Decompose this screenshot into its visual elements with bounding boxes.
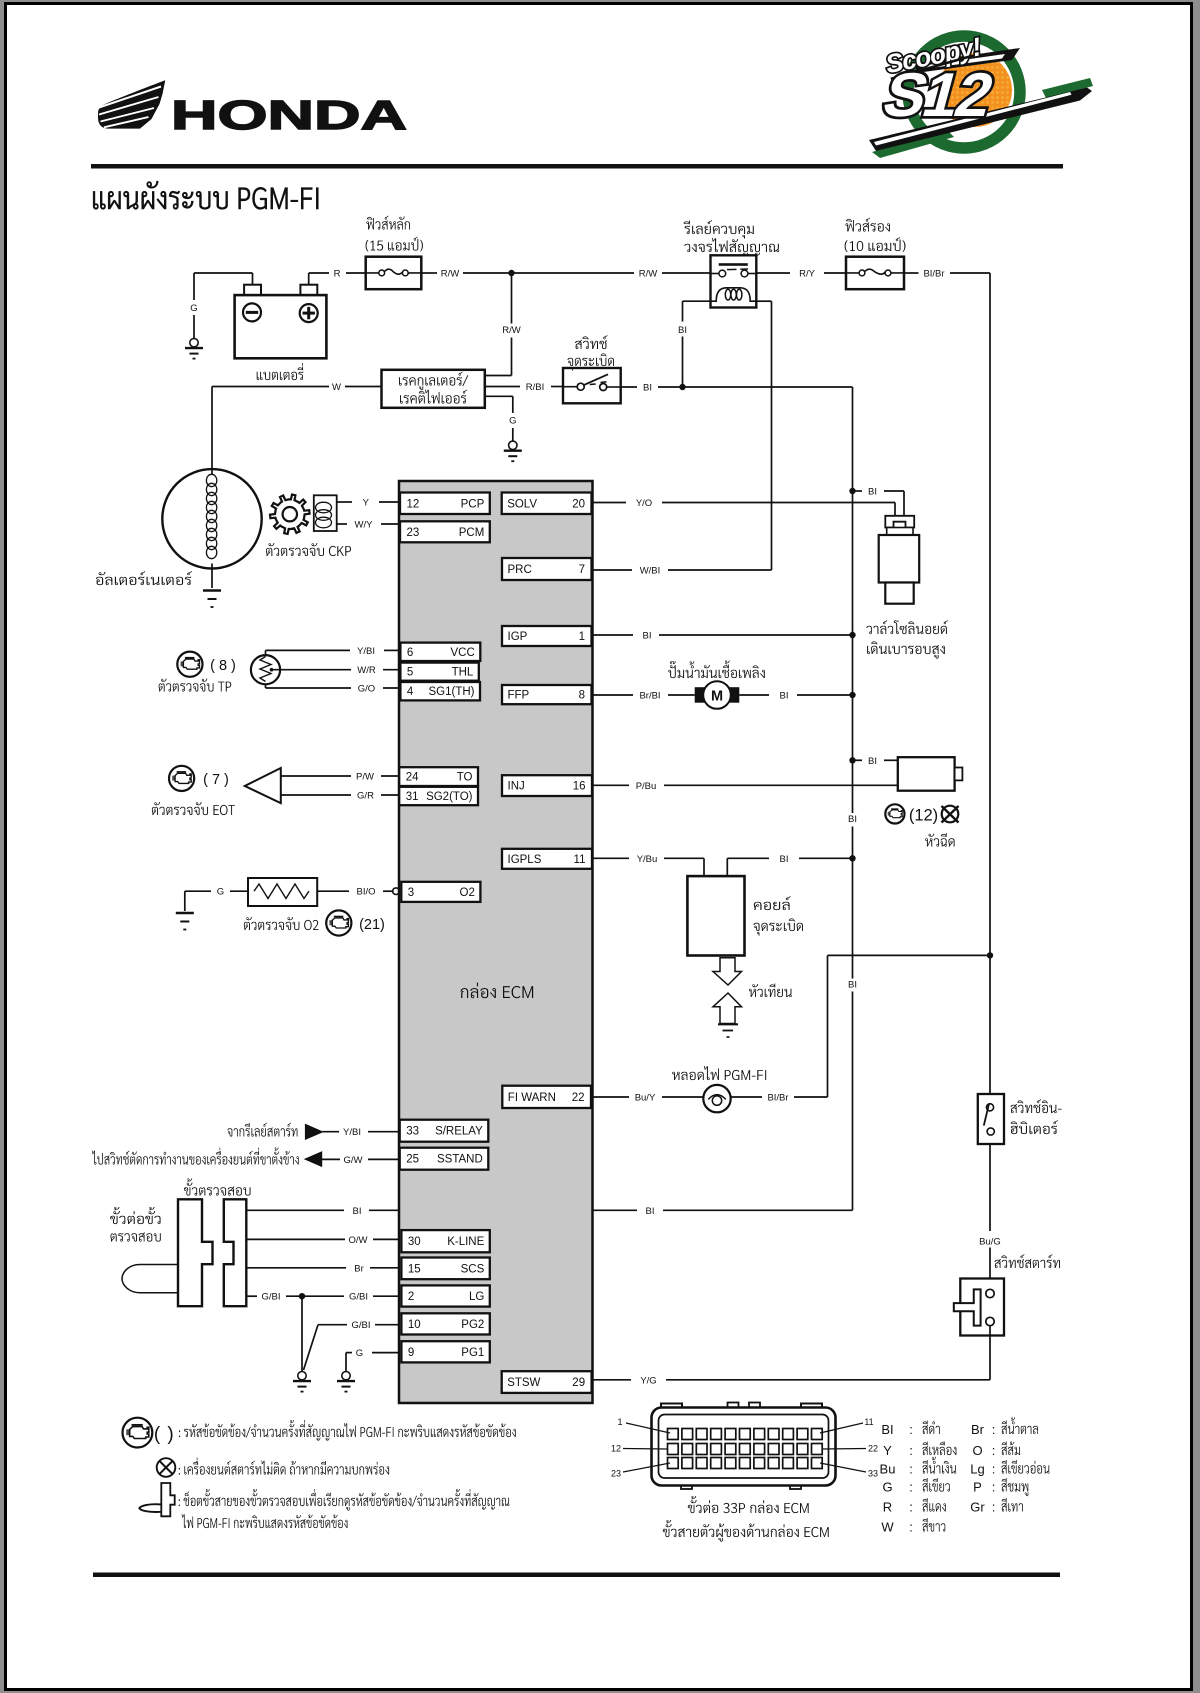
svg-text:Y/Bu: Y/Bu xyxy=(637,854,658,865)
svg-text::: : xyxy=(909,1462,913,1477)
svg-text:2: 2 xyxy=(408,1291,414,1303)
svg-text:4: 4 xyxy=(407,686,414,698)
svg-text:SG1(TH): SG1(TH) xyxy=(429,686,475,698)
svg-text:24: 24 xyxy=(406,772,419,784)
svg-text::: : xyxy=(909,1443,913,1458)
svg-text::: : xyxy=(992,1480,996,1495)
svg-text:G/BI: G/BI xyxy=(349,1292,368,1303)
svg-text:Y/BI: Y/BI xyxy=(357,646,375,657)
svg-text:Bu: Bu xyxy=(880,1462,896,1477)
svg-text::: : xyxy=(992,1422,996,1437)
svg-text:O: O xyxy=(972,1443,982,1458)
svg-text:15: 15 xyxy=(408,1263,421,1275)
svg-text:Bu/G: Bu/G xyxy=(979,1237,1001,1248)
svg-text:SSTAND: SSTAND xyxy=(437,1154,483,1166)
svg-text:30: 30 xyxy=(408,1236,421,1248)
svg-text:STSW: STSW xyxy=(507,1377,540,1389)
svg-text:11: 11 xyxy=(864,1417,873,1427)
svg-text:PG2: PG2 xyxy=(461,1319,484,1331)
svg-text:PCP: PCP xyxy=(461,498,485,510)
svg-text:Br: Br xyxy=(971,1422,985,1437)
svg-text:23: 23 xyxy=(407,527,420,539)
svg-text:R/W: R/W xyxy=(639,269,658,280)
svg-text:FFP: FFP xyxy=(508,690,530,702)
svg-text:1: 1 xyxy=(617,1417,622,1427)
svg-text:22: 22 xyxy=(868,1444,878,1454)
svg-text:LG: LG xyxy=(469,1291,484,1303)
svg-text:1: 1 xyxy=(579,631,585,643)
svg-text:BI: BI xyxy=(848,980,857,991)
svg-text:INJ: INJ xyxy=(508,781,525,793)
svg-text:Bu/Y: Bu/Y xyxy=(635,1093,656,1104)
svg-text:12: 12 xyxy=(407,498,420,510)
svg-text:IGP: IGP xyxy=(508,631,528,643)
svg-text:6: 6 xyxy=(407,647,413,659)
svg-text:( 8 ): ( 8 ) xyxy=(210,658,236,674)
svg-text:G: G xyxy=(190,303,197,314)
svg-text:VCC: VCC xyxy=(451,647,475,659)
svg-text:8: 8 xyxy=(579,690,585,702)
svg-text:11: 11 xyxy=(574,854,586,866)
svg-text:33: 33 xyxy=(868,1469,878,1479)
svg-text::: : xyxy=(909,1520,913,1535)
svg-text:PG1: PG1 xyxy=(461,1347,484,1359)
svg-text:SG2(TO): SG2(TO) xyxy=(426,791,473,803)
svg-text:BI: BI xyxy=(643,383,652,394)
svg-text:BI: BI xyxy=(848,814,857,825)
svg-text:SOLV: SOLV xyxy=(507,498,537,510)
svg-text:O/W: O/W xyxy=(349,1235,368,1246)
svg-text::: : xyxy=(992,1500,996,1515)
svg-text::: : xyxy=(992,1462,996,1477)
svg-text:(21): (21) xyxy=(359,917,385,933)
svg-text:W/R: W/R xyxy=(357,665,376,676)
svg-text:Lg: Lg xyxy=(970,1462,984,1477)
svg-text:S/RELAY: S/RELAY xyxy=(435,1126,483,1138)
svg-text:(: ( xyxy=(154,1424,161,1445)
svg-text:3: 3 xyxy=(408,887,414,899)
svg-text:G/W: G/W xyxy=(344,1155,363,1166)
svg-text:SCS: SCS xyxy=(461,1263,485,1275)
svg-text:R/BI: R/BI xyxy=(526,382,544,393)
svg-text:Br/BI: Br/BI xyxy=(639,691,660,702)
svg-text:G: G xyxy=(509,416,516,427)
svg-text:Br: Br xyxy=(354,1263,364,1274)
svg-text::: : xyxy=(909,1500,913,1515)
svg-text:Y/O: Y/O xyxy=(636,498,652,509)
svg-text:BI: BI xyxy=(678,325,687,336)
svg-text:G/O: G/O xyxy=(358,684,375,695)
svg-text:Y: Y xyxy=(363,498,370,509)
svg-text:BI: BI xyxy=(780,691,789,702)
svg-text:S12: S12 xyxy=(876,61,999,130)
svg-text:THL: THL xyxy=(452,667,474,679)
svg-text:31: 31 xyxy=(406,791,419,803)
svg-text:20: 20 xyxy=(572,498,585,510)
svg-text:Gr: Gr xyxy=(970,1500,985,1515)
svg-text:G/R: G/R xyxy=(357,791,374,802)
svg-text:BI/O: BI/O xyxy=(356,887,375,898)
svg-text::: : xyxy=(992,1443,996,1458)
svg-text:BI: BI xyxy=(868,487,877,498)
svg-text:G: G xyxy=(217,887,224,898)
svg-text:W: W xyxy=(881,1520,894,1535)
svg-text:BI: BI xyxy=(643,631,652,642)
svg-text:O2: O2 xyxy=(460,887,475,899)
svg-text:Y/G: Y/G xyxy=(640,1375,656,1386)
svg-text::: : xyxy=(909,1422,913,1437)
svg-text:W/BI: W/BI xyxy=(640,566,661,577)
svg-text:K-LINE: K-LINE xyxy=(447,1236,484,1248)
svg-text:23: 23 xyxy=(611,1469,621,1479)
svg-text:FI WARN: FI WARN xyxy=(508,1092,556,1104)
svg-text:25: 25 xyxy=(406,1154,419,1166)
svg-text:P: P xyxy=(973,1480,982,1495)
svg-text:Y/BI: Y/BI xyxy=(343,1127,361,1138)
svg-text:16: 16 xyxy=(573,781,586,793)
svg-text:G/BI: G/BI xyxy=(261,1292,280,1303)
svg-text:PCM: PCM xyxy=(459,527,485,539)
svg-text:( 7 ): ( 7 ) xyxy=(203,772,229,788)
svg-text:W: W xyxy=(332,382,341,393)
svg-text:Y: Y xyxy=(883,1443,892,1458)
svg-text:W/Y: W/Y xyxy=(355,520,374,531)
svg-text:BI: BI xyxy=(646,1206,655,1217)
svg-text:G: G xyxy=(356,1348,363,1359)
svg-text:7: 7 xyxy=(579,564,585,576)
svg-text:G: G xyxy=(882,1480,892,1495)
svg-text:R/W: R/W xyxy=(441,269,460,280)
svg-text:P/W: P/W xyxy=(356,772,374,783)
svg-text:P/Bu: P/Bu xyxy=(636,781,657,792)
svg-text:BI: BI xyxy=(868,756,877,767)
svg-text:29: 29 xyxy=(572,1377,585,1389)
svg-text:33: 33 xyxy=(406,1126,419,1138)
svg-text:12: 12 xyxy=(611,1444,621,1454)
svg-text:R/Y: R/Y xyxy=(799,269,816,280)
svg-text:BI/Br: BI/Br xyxy=(923,269,944,280)
svg-text:BI/Br: BI/Br xyxy=(767,1093,788,1104)
svg-text:R/W: R/W xyxy=(502,325,521,336)
svg-text:M: M xyxy=(711,689,723,705)
svg-text:IGPLS: IGPLS xyxy=(508,854,542,866)
svg-text::: : xyxy=(909,1480,913,1495)
svg-text:9: 9 xyxy=(408,1347,414,1359)
svg-text:(12): (12) xyxy=(909,807,938,825)
svg-text:BI: BI xyxy=(881,1422,893,1437)
svg-text:HONDA: HONDA xyxy=(171,92,407,138)
svg-text:R: R xyxy=(334,269,341,280)
svg-text:BI: BI xyxy=(353,1206,362,1217)
svg-text:5: 5 xyxy=(407,667,413,679)
svg-text:R: R xyxy=(883,1500,892,1515)
svg-text:PRC: PRC xyxy=(508,564,532,576)
svg-text:): ) xyxy=(167,1424,173,1445)
svg-text:TO: TO xyxy=(457,772,473,784)
svg-text:G/BI: G/BI xyxy=(351,1320,370,1331)
svg-text:22: 22 xyxy=(572,1092,585,1104)
svg-text:BI: BI xyxy=(780,854,789,865)
svg-text:10: 10 xyxy=(408,1319,421,1331)
